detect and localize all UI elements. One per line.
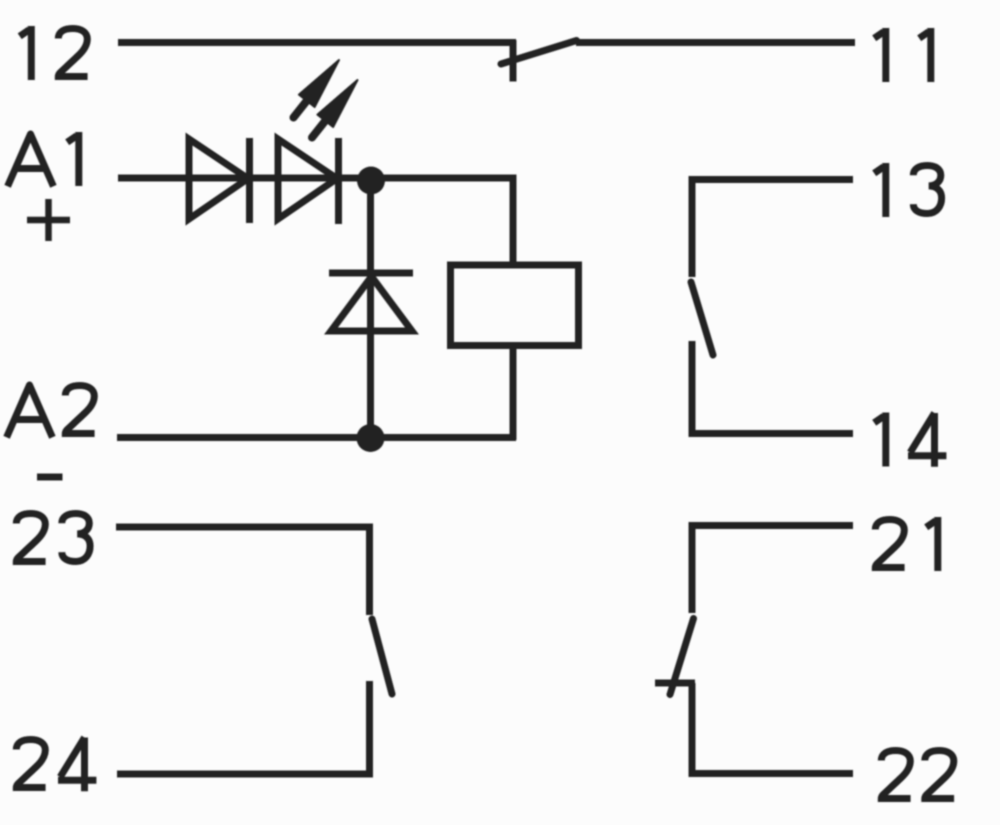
contact 13-14 lower contact and wire to 14: [692, 341, 853, 434]
relay coil K1: [451, 265, 579, 346]
diode D1 cathode bar: [246, 138, 253, 223]
wire 12 to NC contact: [118, 39, 516, 46]
coil bottom lead: [510, 344, 517, 440]
wire 13 to NO contact: [692, 180, 853, 278]
junction node A1: [357, 167, 385, 195]
junction node A2: [357, 424, 385, 452]
terminal label 12: [20, 26, 88, 80]
contact 23-24 lower contact and wire to 24: [117, 681, 370, 774]
LED D2 cathode bar: [335, 138, 342, 224]
terminal label A2: [7, 385, 95, 437]
LED arrow 2: [312, 80, 358, 138]
terminal label 23: [16, 514, 90, 562]
wire NC contact to 11: [576, 39, 855, 46]
wire A1 to coil: [118, 178, 513, 266]
wire 23 to NO contact: [116, 527, 370, 615]
contact 21-22 fixed bar: [655, 680, 695, 687]
wire A2: [117, 434, 516, 441]
contact 21-22 blade: [670, 619, 694, 695]
contact 21-22 lower contact and wire to 22: [692, 683, 853, 774]
contact 11-12 blade: [501, 41, 577, 65]
plus sign: [27, 199, 70, 241]
terminal label A1: [8, 132, 79, 186]
freewheel diode triangle: [331, 277, 412, 332]
contact 23-24 blade: [372, 619, 392, 694]
wire 21 to NC contact: [692, 526, 853, 614]
LED arrow 1: [294, 60, 340, 118]
terminal label 22: [881, 751, 954, 799]
terminal label 11: [874, 28, 931, 82]
minus sign: [37, 474, 63, 481]
freewheel diode cathode bar: [329, 270, 413, 277]
terminal label 14: [874, 413, 946, 467]
terminal label 21: [875, 517, 938, 571]
diode D1 triangle: [189, 139, 248, 219]
LED D2 triangle: [278, 139, 337, 219]
contact 11-12 fixed bar: [510, 40, 517, 82]
wire junction to junction vertical: [367, 179, 374, 438]
contact 13-14 blade: [691, 282, 713, 355]
terminal label 13: [874, 163, 941, 217]
terminal label 24: [16, 738, 96, 792]
